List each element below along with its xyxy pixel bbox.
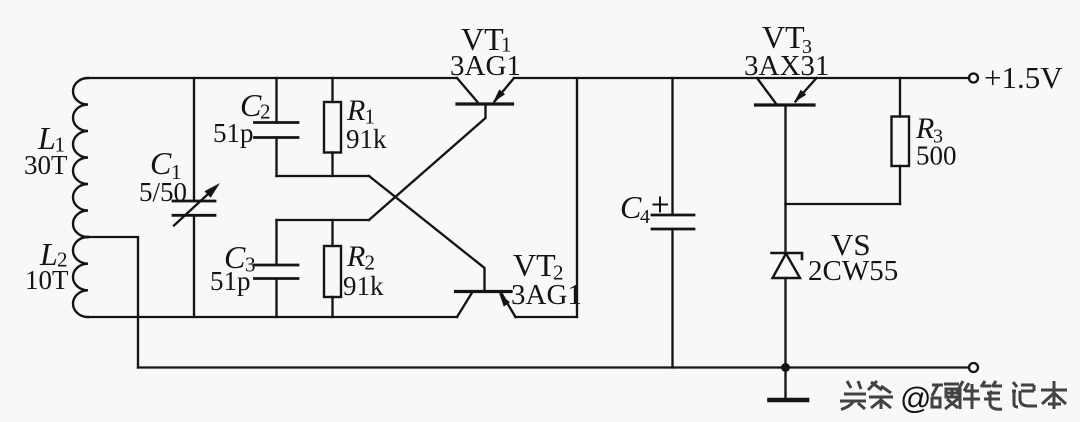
terminal +1.5V (969, 74, 978, 83)
svg-text:30T: 30T (24, 150, 68, 180)
zener diode VS (772, 253, 803, 368)
svg-text:C: C (620, 189, 642, 225)
capacitor C2 (255, 78, 299, 176)
transistor VT3 (756, 78, 817, 253)
wire ground rail y=367.5 (138, 366, 969, 368)
capacitor C3 (255, 220, 299, 317)
junction dot (781, 363, 790, 372)
capacitor C1 (variable) (173, 78, 220, 317)
resistor R2 (324, 220, 341, 317)
transistor VT2 (456, 292, 516, 318)
wire emitter vertical x=577 (576, 78, 578, 317)
svg-text:51p: 51p (213, 118, 254, 148)
wire cross diagonal to VT2 base (369, 176, 485, 292)
capacitor C4 (652, 78, 694, 368)
wire coil tap (88, 237, 138, 368)
svg-text:VT: VT (513, 247, 556, 283)
inductor L1 (73, 78, 88, 237)
wire VT2 emitter to right vertical (516, 316, 578, 318)
svg-text:5/50: 5/50 (139, 177, 187, 207)
resistor R3 (892, 78, 910, 204)
svg-text:3AG1: 3AG1 (511, 279, 582, 311)
resistor R1 (324, 78, 341, 176)
ground (770, 368, 808, 401)
svg-text:500: 500 (916, 141, 957, 171)
svg-text:+1.5V: +1.5V (984, 60, 1063, 95)
wire base coupling B y=220 (277, 219, 370, 221)
wire cross diagonal to VT1 base (369, 104, 486, 220)
svg-text:2: 2 (260, 100, 271, 124)
svg-text:2CW55: 2CW55 (808, 255, 898, 287)
transistor VT1 (457, 78, 514, 104)
svg-text:91k: 91k (346, 124, 387, 154)
terminal bottom (969, 363, 978, 372)
wire top emitter rail (514, 77, 969, 79)
wire base coupling A y=176 (277, 175, 370, 177)
svg-text:@: @ (900, 381, 931, 416)
wire VT3 base to R3 bottom (786, 203, 901, 205)
wire top collector rail (88, 77, 457, 79)
svg-text:C: C (150, 145, 172, 181)
inductor L2 (73, 237, 88, 317)
svg-text:3AG1: 3AG1 (450, 50, 521, 82)
svg-text:4: 4 (640, 206, 650, 228)
svg-text:91k: 91k (343, 271, 384, 301)
svg-text:R: R (346, 94, 365, 127)
svg-text:R: R (346, 240, 365, 273)
svg-text:51p: 51p (210, 266, 251, 296)
wire bottom collector rail y=317 (88, 316, 457, 318)
svg-text:3AX31: 3AX31 (744, 50, 829, 82)
watermark 头条@硬件笔记本 (840, 381, 1067, 410)
svg-text:10T: 10T (25, 265, 69, 295)
